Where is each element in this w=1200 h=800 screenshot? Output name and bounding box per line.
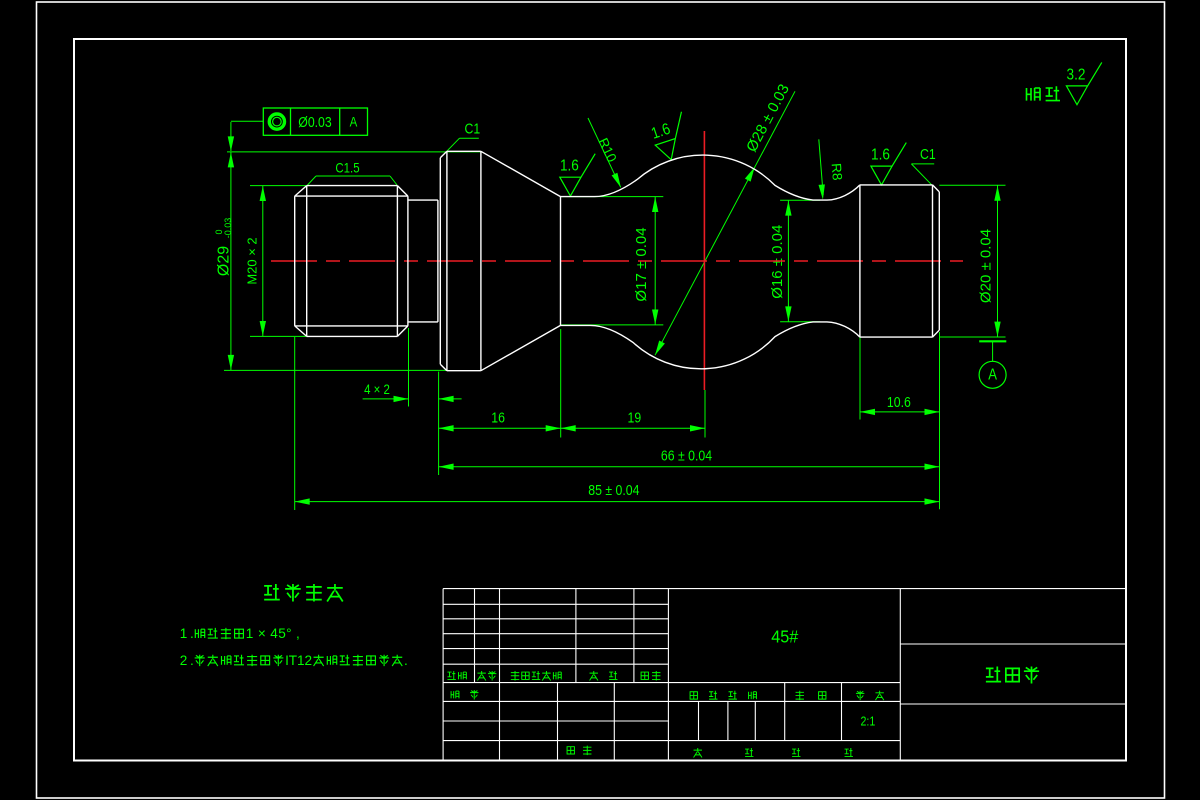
dimension 16 bbox=[439, 427, 561, 429]
svg-text:Ø0.03: Ø0.03 bbox=[298, 114, 332, 130]
svg-text:19: 19 bbox=[628, 410, 642, 426]
technical requirements bbox=[264, 584, 280, 600]
surface finish 1.6 (on right cylinder) bbox=[871, 143, 906, 185]
dimension D28 sphere leader bbox=[655, 91, 795, 355]
svg-text:A: A bbox=[988, 367, 997, 384]
title block grid bbox=[443, 588, 1126, 590]
part name: spherical shaft bbox=[986, 666, 1001, 681]
dimension 4x2 bbox=[363, 398, 409, 400]
dimension D20 bbox=[997, 185, 999, 337]
radius leader R8 bbox=[819, 139, 823, 195]
svg-text:85 ± 0.04: 85 ± 0.04 bbox=[588, 482, 639, 498]
dimension D16 bbox=[787, 200, 789, 322]
svg-text:1 × 45° ,: 1 × 45° , bbox=[246, 626, 300, 641]
chamfer callout C1.5 bbox=[316, 175, 390, 177]
svg-text:66 ± 0.04: 66 ± 0.04 bbox=[661, 447, 712, 463]
svg-text:45#: 45# bbox=[771, 627, 798, 647]
svg-text:-0.03: -0.03 bbox=[223, 218, 233, 239]
svg-text:2:1: 2:1 bbox=[860, 713, 875, 728]
radius leader R10 bbox=[588, 118, 621, 187]
dimension M20x2 bbox=[262, 186, 264, 337]
dimension 19 bbox=[561, 427, 705, 429]
thread relief groove 4x2 bbox=[407, 196, 409, 326]
D17 section and sphere top profile bbox=[561, 155, 860, 200]
inner border frame bbox=[74, 39, 1126, 761]
general roughness 3.2 (top-right) bbox=[1066, 62, 1101, 104]
svg-text:C1: C1 bbox=[920, 146, 936, 162]
svg-text:.: . bbox=[404, 653, 408, 668]
title block texts bbox=[447, 671, 455, 679]
dimension D17 bbox=[654, 197, 656, 325]
right cylinder D20 bbox=[859, 185, 861, 337]
datum A symbol bbox=[940, 336, 1006, 338]
chamfer callout C1 (right cylinder) bbox=[911, 163, 934, 165]
svg-text:16: 16 bbox=[491, 410, 505, 426]
svg-text:A: A bbox=[350, 114, 358, 130]
svg-text:1.: 1. bbox=[180, 626, 194, 641]
svg-text:C1.5: C1.5 bbox=[335, 160, 359, 176]
svg-text:3.2: 3.2 bbox=[1067, 66, 1086, 83]
sphere center vertical centerline bbox=[703, 131, 705, 390]
surface finish 1.6 (on D17 section) bbox=[560, 154, 595, 196]
svg-text:2.: 2. bbox=[180, 653, 194, 668]
svg-text:Ø17 ± 0.04: Ø17 ± 0.04 bbox=[633, 227, 650, 301]
chamfer callout C1 (flange) bbox=[460, 137, 479, 139]
D17 section and sphere bottom profile bbox=[561, 322, 860, 369]
surface finish 1.6 (on sphere) bbox=[648, 112, 695, 163]
svg-text:M20 × 2: M20 × 2 bbox=[244, 237, 259, 284]
dimension D29 with tolerance bbox=[230, 152, 232, 371]
dimension 85 +-0.04 bbox=[295, 501, 940, 503]
cone transition bbox=[481, 151, 561, 370]
svg-text:Ø20 ± 0.04: Ø20 ± 0.04 bbox=[978, 229, 995, 303]
feature control frame (concentricity 0.03 A) bbox=[263, 108, 367, 135]
qiyu (rest) label bbox=[1027, 88, 1041, 101]
centerline extensions / dimension extension lines bbox=[227, 151, 481, 153]
svg-text:1.6: 1.6 bbox=[871, 147, 890, 164]
shaft outline: thread section M20 bbox=[294, 196, 296, 326]
svg-text:Ø29: Ø29 bbox=[216, 246, 233, 276]
svg-text:IT12: IT12 bbox=[285, 653, 312, 668]
centerline (axis) bbox=[271, 260, 963, 262]
svg-text:10.6: 10.6 bbox=[887, 394, 911, 410]
flange collar D29 bbox=[439, 158, 441, 364]
dimension 10.6 bbox=[860, 411, 940, 413]
svg-text:4 × 2: 4 × 2 bbox=[364, 381, 390, 397]
dimension 66 +-0.04 bbox=[439, 466, 940, 468]
svg-text:C1: C1 bbox=[465, 120, 481, 136]
svg-text:1.6: 1.6 bbox=[560, 158, 579, 175]
svg-text:R8: R8 bbox=[829, 163, 845, 181]
